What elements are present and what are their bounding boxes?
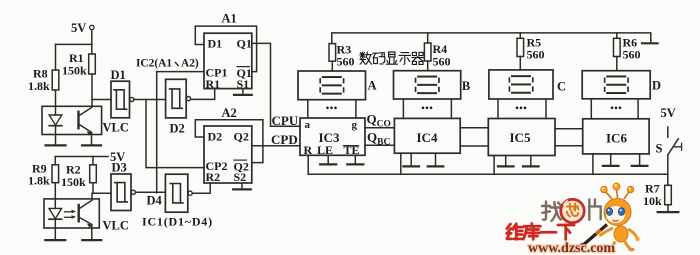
label R1 150k: [62, 51, 87, 78]
wire R9 top: [54, 157, 56, 165]
photodiode LED of VLC1: [49, 115, 62, 144]
schmitt inverter D4: [165, 174, 192, 212]
svg-text:IC5: IC5: [510, 130, 531, 145]
svg-text:CPU: CPU: [272, 113, 299, 128]
svg-text:D1: D1: [111, 68, 126, 82]
svg-text:LE: LE: [317, 143, 333, 157]
wire R1 to node collector/D1: [91, 74, 93, 100]
wire Q2 to CPD input of IC3: [252, 145, 300, 147]
schmitt inverter D2: [166, 79, 191, 118]
wire display A pin g: [355, 100, 357, 118]
svg-text:a: a: [305, 119, 311, 131]
label R6 560: [623, 36, 641, 62]
resistor R3: [329, 44, 336, 62]
schmitt inverter D3: [111, 174, 135, 211]
svg-text:A2): A2): [181, 58, 199, 70]
flip-flop A2 box: [204, 126, 252, 183]
ground IC6 pin1: [610, 154, 612, 166]
display D box: [582, 71, 650, 99]
svg-text:D3: D3: [112, 161, 127, 175]
wire display D right pin: [637, 99, 639, 119]
svg-text:A: A: [368, 79, 377, 93]
svg-text:R2: R2: [206, 170, 221, 184]
svg-text:1.8k: 1.8k: [28, 79, 50, 93]
wire IC4 to IC5 upper: [460, 127, 488, 129]
counter IC4 box: [394, 118, 460, 153]
label R8 1.8k: [28, 67, 50, 94]
wire 5V rail to R8: [56, 43, 93, 45]
ground IC3 TE: [354, 155, 356, 164]
seven-segment symbol C: [509, 75, 534, 94]
wire 5V rail bottom section: [55, 156, 108, 158]
display A box: [298, 71, 366, 100]
wire node to D3 input: [93, 192, 111, 194]
watermark red seal circle with xin glyph: [561, 199, 584, 222]
svg-text:10k: 10k: [643, 194, 662, 208]
svg-text:150k: 150k: [61, 175, 86, 189]
wire node to D1 input: [92, 99, 111, 101]
resistor R4: [424, 43, 431, 61]
svg-text:D1: D1: [208, 37, 223, 51]
label R5 560: [527, 36, 545, 62]
wire node D1out to CP2 of A2: [146, 100, 204, 168]
svg-text:S2: S2: [234, 170, 247, 184]
switch S: [668, 127, 682, 155]
wire display A pin a: [307, 100, 309, 118]
wire A1 feedback loop Q1bar to D1: [195, 26, 256, 72]
display B box: [394, 71, 461, 99]
ground IC6 pin2: [639, 154, 641, 166]
svg-text:D2: D2: [208, 130, 223, 144]
pin labels A1: D1 Q1 CP1 Q1bar R1 S1: [206, 37, 252, 91]
svg-text:IC6: IC6: [606, 130, 627, 145]
light arrows VLC2: [65, 210, 77, 219]
svg-text:560: 560: [337, 55, 355, 69]
watermark mascot: [565, 183, 640, 251]
wire IC6 R pin down: [592, 154, 594, 174]
svg-text:A2: A2: [222, 106, 237, 120]
wire display C left pin: [497, 99, 499, 119]
wire R4 to display B: [427, 61, 429, 71]
resistor R6: [614, 38, 621, 56]
resistor R8: [52, 70, 59, 90]
display C box: [489, 70, 553, 99]
ground S2: [241, 183, 243, 189]
wire R9 to LED2: [54, 183, 56, 209]
label text "shu ma xian shi qi" (digital display): [360, 52, 424, 64]
optocoupler VLC1 box: [42, 106, 102, 134]
dots column A: [326, 107, 337, 110]
svg-text:Q1: Q1: [237, 37, 252, 51]
ground IC4 pin2: [435, 153, 437, 166]
wire display B left pin: [402, 99, 404, 118]
watermark red text "wei ku yi xia": [507, 224, 574, 240]
svg-text:IC1(D1~D4): IC1(D1~D4): [142, 215, 213, 229]
dots column C: [516, 107, 527, 110]
ground LED2: [54, 239, 56, 240]
wire common reset net: [308, 173, 668, 175]
label R4 560: [433, 42, 451, 69]
wire IC5 R pin down: [493, 156, 495, 175]
wire D2 out to R1 pin of A1: [191, 89, 215, 100]
ground S1: [242, 89, 244, 95]
wire rail to R5: [519, 33, 521, 38]
power terminal bar top right: [642, 42, 658, 44]
wire CP1 of A1 to D3 output node: [157, 72, 204, 193]
pin labels A2: D2 Q2 CP2 Q2bar R2 S2: [206, 130, 249, 185]
wire rail to R4: [427, 33, 429, 43]
wire D4 out to R2 pin of A2: [192, 183, 210, 193]
flip-flop A1 box: [204, 33, 252, 88]
seven-segment symbol A: [319, 76, 344, 95]
svg-text:IC4: IC4: [417, 130, 438, 145]
svg-text:D2: D2: [170, 122, 185, 136]
svg-text:C: C: [557, 80, 566, 94]
pin labels IC3: a g R LE TEbar and name IC3: [304, 119, 360, 157]
seven-segment symbol D: [604, 75, 629, 94]
svg-text:D4: D4: [147, 194, 163, 208]
wire IC3 R pin down: [307, 155, 309, 174]
resistor R7: [665, 185, 672, 204]
svg-text:560: 560: [623, 48, 641, 62]
svg-text:560: 560: [433, 55, 451, 69]
ground IC5 pin2: [530, 156, 532, 167]
svg-text:Q2: Q2: [234, 130, 249, 144]
svg-text:1.8k: 1.8k: [28, 174, 50, 188]
ground phototransistor 1: [91, 144, 93, 145]
wire top 5V rail: [332, 33, 651, 44]
wire D3 out to D4 in: [135, 191, 165, 193]
svg-text:VLC: VLC: [103, 219, 129, 233]
svg-text:IC2(A1: IC2(A1: [136, 58, 172, 70]
dots column B: [422, 107, 433, 110]
svg-text:5V: 5V: [661, 106, 676, 120]
wire 5V to R1: [91, 30, 93, 54]
wire IC4 to IC5 lower: [460, 145, 488, 147]
counter IC6 box: [583, 119, 649, 154]
wire D1 out to D2 in: [134, 99, 166, 101]
svg-text:VLC: VLC: [103, 121, 129, 135]
node 5V terminal top-left: [71, 21, 94, 35]
resistor R1: [89, 54, 96, 74]
wire R2 top: [92, 157, 94, 165]
wire display D left pin: [590, 99, 592, 119]
photodiode LED of VLC2: [49, 208, 62, 239]
counter IC5 box: [488, 119, 555, 156]
watermark char "zhao": [542, 202, 561, 222]
resistor R2: [90, 165, 97, 183]
wire A2 feedback loop Q2bar to D2: [195, 120, 263, 163]
schmitt inverter D1: [111, 81, 134, 118]
wire switch to R7: [667, 155, 669, 185]
wire rail to R6: [616, 33, 618, 38]
svg-text:S: S: [656, 142, 663, 156]
label R2 150k: [61, 163, 86, 190]
ground LED1: [55, 144, 57, 145]
wire R8 to LED: [55, 90, 57, 115]
wire R2 bottom: [92, 183, 94, 194]
svg-text:D: D: [652, 79, 661, 93]
svg-text:5V: 5V: [71, 21, 86, 35]
wire IC5 to IC6 lower: [555, 145, 583, 147]
wire display C right pin: [545, 99, 547, 119]
svg-text:A1: A1: [222, 12, 237, 26]
optocoupler VLC2 box: [44, 199, 99, 228]
svg-text:560: 560: [527, 48, 545, 62]
resistor R9: [52, 165, 59, 183]
svg-text:www.dzsc.com: www.dzsc.com: [528, 241, 615, 255]
ground IC5 pin1: [505, 156, 507, 167]
svg-text:CPD: CPD: [271, 132, 298, 147]
wire QCO IC3 to IC4: [365, 127, 394, 129]
wire IC4 R pin down: [400, 153, 402, 174]
svg-text:B: B: [462, 79, 470, 93]
watermark char "pian": [589, 200, 600, 220]
ground IC4 pin1: [410, 153, 412, 166]
wire R8 top: [55, 44, 57, 70]
dots column D: [611, 107, 622, 110]
ground phototransistor 2: [91, 239, 93, 240]
svg-text:R1: R1: [206, 77, 221, 91]
label R9 1.8k: [28, 162, 50, 188]
ground IC3 LE: [327, 155, 329, 164]
wire Q1 to CPU input of IC3: [252, 43, 300, 126]
wire QBC IC3 to IC4: [365, 144, 394, 146]
phototransistor Q of VLC2: [79, 193, 92, 239]
ground R7: [667, 205, 669, 212]
seven-segment symbol B: [415, 76, 440, 95]
wire R3 to display A: [331, 61, 333, 71]
counter IC3 box: [300, 118, 365, 155]
wire R5 to display C: [519, 57, 521, 70]
wire IC5 to IC6 upper: [555, 128, 583, 130]
label R7 10k: [643, 182, 662, 209]
svg-text:g: g: [352, 119, 358, 131]
phototransistor Q of VLC1: [79, 100, 93, 145]
resistor R5: [517, 38, 524, 56]
wire display B right pin: [450, 99, 452, 118]
wire R6 to display D: [616, 57, 618, 71]
svg-text:150k: 150k: [62, 64, 87, 78]
label R3 560: [337, 43, 355, 69]
